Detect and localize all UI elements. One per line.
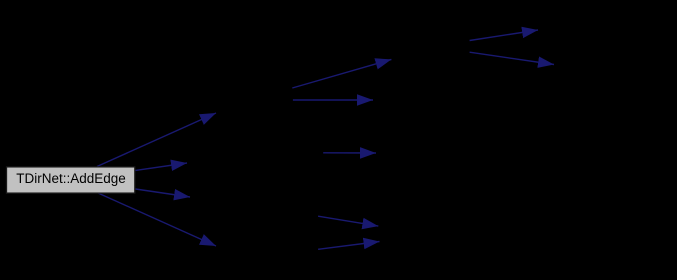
edge node3 to node8 (horizontal y=153) [323, 152, 376, 154]
edge AddEdge to node5 (bottom) [98, 193, 216, 246]
edge node2 to node6 (upper middle, rising) [292, 59, 391, 88]
edge node6 to node10 (top right, rising) [470, 30, 538, 41]
node TDirNet::AddEdge (current node, grey box) [7, 167, 135, 193]
edge node5b to node9 (up-right) [318, 242, 379, 250]
edge node6 to node11 (top right, falling) [470, 52, 554, 64]
edge AddEdge to node2 (top) [97, 113, 216, 167]
edge AddEdge to node3 [136, 163, 188, 170]
edge node2 to node7 (horizontal y=100) [293, 99, 373, 101]
edge AddEdge to node4 [136, 189, 191, 197]
svg-text:TDirNet::AddEdge: TDirNet::AddEdge [16, 171, 126, 186]
edge node5 to node9 (down-right) [318, 216, 378, 226]
